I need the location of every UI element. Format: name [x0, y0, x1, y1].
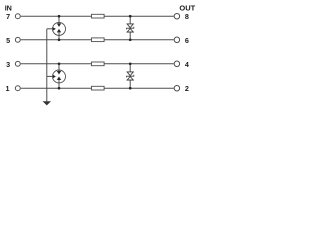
svg-text:3: 3	[6, 60, 10, 69]
svg-text:7: 7	[6, 12, 10, 21]
svg-text:IN: IN	[5, 4, 12, 13]
svg-text:2: 2	[185, 84, 189, 93]
svg-text:1: 1	[6, 84, 10, 93]
svg-text:4: 4	[185, 60, 189, 69]
svg-text:6: 6	[185, 36, 189, 45]
svg-text:8: 8	[185, 12, 189, 21]
svg-text:OUT: OUT	[179, 3, 195, 12]
svg-text:5: 5	[6, 36, 10, 45]
